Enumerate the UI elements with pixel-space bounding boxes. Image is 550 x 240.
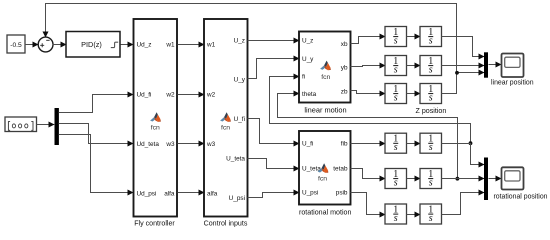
svg-text:w2: w2 <box>165 91 175 98</box>
svg-text:Control inputs: Control inputs <box>204 220 248 228</box>
svg-text:U_fi: U_fi <box>234 116 245 123</box>
integrator 1/s rotational row3 col1 <box>385 204 407 224</box>
integrator 1/s linear row1 col1 <box>385 27 407 47</box>
wire <box>407 93 421 95</box>
wire <box>407 178 421 180</box>
wire <box>489 64 502 66</box>
rotational motion MATLAB function block <box>299 131 351 205</box>
svg-text:linear motion: linear motion <box>304 106 346 115</box>
integrator 1/s rotational row2 col2 <box>420 169 442 189</box>
svg-text:-0.5: -0.5 <box>10 42 22 49</box>
svg-text:PID(z): PID(z) <box>81 40 102 49</box>
wire <box>407 36 421 38</box>
svg-text:psib: psib <box>336 190 348 197</box>
svg-text:s: s <box>429 92 433 103</box>
integrator 1/s rotational row1 col2 <box>420 133 442 153</box>
wire fib <box>351 143 386 145</box>
wire U_z <box>248 40 300 42</box>
wire teta-angle feedback <box>278 94 458 179</box>
svg-text:rotational motion: rotational motion <box>299 208 351 216</box>
svg-text:fcn: fcn <box>318 176 327 183</box>
svg-text:Ud_psi: Ud_psi <box>137 190 157 197</box>
PID(z) controller block <box>66 32 120 58</box>
svg-text:fcn: fcn <box>321 74 330 81</box>
wire <box>178 94 205 96</box>
svg-text:Ud_z: Ud_z <box>137 41 152 48</box>
integrator 1/s linear row2 col1 <box>385 56 407 76</box>
svg-text:fcn: fcn <box>221 125 230 132</box>
wire <box>178 143 205 145</box>
svg-text:s: s <box>429 213 433 224</box>
svg-text:yb: yb <box>341 64 348 71</box>
wire xb <box>351 37 386 44</box>
scope linear position <box>502 54 524 78</box>
svg-text:U_z: U_z <box>302 38 313 45</box>
wire yb <box>351 66 386 67</box>
svg-text:w2: w2 <box>206 91 216 98</box>
integrator 1/s linear row3 col1 <box>385 84 407 104</box>
constant block -0.5 <box>7 35 25 53</box>
svg-text:linear position: linear position <box>491 79 534 86</box>
wire <box>178 44 205 46</box>
svg-text:s: s <box>394 35 398 46</box>
wire U_teta <box>248 159 300 169</box>
svg-text:theta: theta <box>302 91 317 98</box>
svg-text:rotational position: rotational position <box>493 193 547 200</box>
svg-text:fcn: fcn <box>151 125 160 132</box>
wire <box>37 124 55 126</box>
svg-text:w3: w3 <box>206 141 216 148</box>
wire <box>25 44 39 46</box>
wire z to mux and feedback node <box>442 73 485 94</box>
demux <box>55 108 59 145</box>
svg-text:U_teta: U_teta <box>226 155 245 162</box>
svg-text:fib: fib <box>341 141 348 148</box>
wire fi to mux <box>442 144 485 165</box>
Control inputs MATLAB function block <box>204 19 248 217</box>
integrator 1/s rotational row1 col1 <box>385 133 407 153</box>
svg-text:tetab: tetab <box>333 165 348 172</box>
Fly controller MATLAB function block <box>134 19 178 217</box>
wire <box>489 178 502 180</box>
wire <box>407 65 421 67</box>
svg-text:s: s <box>429 35 433 46</box>
svg-text:s: s <box>394 177 398 188</box>
wire demux to Ud_teta <box>59 124 134 144</box>
svg-text:Fly controller: Fly controller <box>134 220 175 228</box>
svg-text:U_psi: U_psi <box>229 195 245 202</box>
integrator 1/s rotational row2 col1 <box>385 169 407 189</box>
constant block [0 0 0] <box>5 117 37 132</box>
integrator 1/s linear row2 col2 <box>420 56 442 76</box>
integrator 1/s rotational row3 col2 <box>420 204 442 224</box>
svg-text:zb: zb <box>341 88 348 95</box>
svg-text:Z position: Z position <box>416 107 447 115</box>
svg-text:s: s <box>394 142 398 153</box>
wire <box>121 44 134 46</box>
wire U_psi <box>248 193 300 198</box>
wire zb <box>351 91 386 94</box>
svg-text:Ud_teta: Ud_teta <box>137 141 160 148</box>
wire <box>407 143 421 145</box>
svg-text:s: s <box>394 92 398 103</box>
svg-text:Ud_fi: Ud_fi <box>137 91 152 98</box>
wire <box>178 192 205 194</box>
wire U_y <box>248 59 300 79</box>
sum junction <box>38 37 53 52</box>
svg-text:U_y: U_y <box>302 56 314 63</box>
svg-text:s: s <box>429 64 433 75</box>
wire <box>407 214 421 216</box>
integrator 1/s linear row3 col2 <box>420 84 442 104</box>
linear motion MATLAB function block <box>299 32 351 103</box>
wire U_fi <box>248 119 300 144</box>
svg-text:w1: w1 <box>165 41 175 48</box>
svg-text:w1: w1 <box>206 41 216 48</box>
svg-text:fi: fi <box>302 74 305 81</box>
scope rotational position <box>502 167 524 189</box>
wire teta to mux <box>442 178 485 180</box>
svg-text:s: s <box>394 213 398 224</box>
mux linear <box>484 52 488 77</box>
svg-text:s: s <box>429 142 433 153</box>
svg-text:U_psi: U_psi <box>302 190 318 197</box>
svg-text:U_z: U_z <box>234 37 245 44</box>
svg-text:alfa: alfa <box>207 190 218 197</box>
wire <box>53 44 67 46</box>
wire tetab <box>351 169 386 179</box>
svg-text:U_y: U_y <box>234 76 246 83</box>
wire psib <box>351 193 386 215</box>
wire psi to mux <box>442 193 485 215</box>
integrator 1/s linear row1 col2 <box>420 27 442 47</box>
wire fi-angle feedback <box>270 77 471 144</box>
wire demux to Ud_fi <box>59 95 134 113</box>
svg-text:s: s <box>429 177 433 188</box>
svg-text:w3: w3 <box>165 141 175 148</box>
wire demux to Ud_psi <box>59 135 134 193</box>
mux rotational <box>484 158 488 201</box>
svg-text:s: s <box>394 64 398 75</box>
svg-text:alfa: alfa <box>164 190 175 197</box>
wire z-position feedback <box>46 4 457 73</box>
svg-text:xb: xb <box>341 41 348 48</box>
wire y to mux <box>442 65 485 67</box>
wire x to mux <box>442 37 485 57</box>
svg-text:U_fi: U_fi <box>302 141 313 148</box>
